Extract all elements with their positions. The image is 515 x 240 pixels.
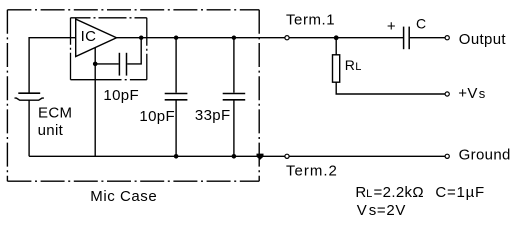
svg-text:Vs=2V: Vs=2V <box>357 202 406 219</box>
wire: C3 top lead <box>233 38 235 93</box>
wire: C2 top lead <box>175 38 177 93</box>
node: output bus at RL <box>334 35 339 40</box>
terminal Ground <box>445 154 449 158</box>
wire: input from ECM to IC amp <box>29 38 76 93</box>
capacitor C1 10pF feedback plates <box>118 53 120 76</box>
capacitor C2 10pF plates <box>165 93 188 95</box>
ground rail wire from ECM to Ground terminal <box>29 155 445 157</box>
svg-text:RL=2.2kΩ: RL=2.2kΩ <box>355 184 424 201</box>
IC package dash-dot box <box>71 18 147 80</box>
node: ground rail at C2 <box>174 154 179 159</box>
svg-text:Mic Case: Mic Case <box>90 188 157 205</box>
wire: feedback junction to feedback cap <box>95 63 119 65</box>
terminal Term.2 <box>285 154 289 158</box>
terminal +Vs <box>445 92 449 96</box>
wire: RL top lead <box>335 38 337 55</box>
op-amp U1 triangle (IC) <box>76 19 117 56</box>
node: output bus at C3 <box>232 36 236 40</box>
svg-text:ECM: ECM <box>38 104 72 121</box>
terminal Output <box>445 36 449 40</box>
wire: feedback vertical from amp to ground rail <box>94 48 96 157</box>
capacitor C output coupling plates <box>403 27 405 50</box>
node: mic case connection to ground rail (arrow) <box>257 154 264 160</box>
svg-text:+Vs: +Vs <box>458 85 485 102</box>
terminal Term.1 <box>285 36 289 40</box>
svg-text:+: + <box>387 18 396 35</box>
svg-text:10pF: 10pF <box>103 87 139 104</box>
svg-text:Term.2: Term.2 <box>286 163 338 180</box>
ECM capsule top plate <box>18 92 40 94</box>
ECM capsule bottom curved plate <box>15 98 44 100</box>
wire: C2 bottom lead <box>175 101 177 157</box>
svg-text:10pF: 10pF <box>139 108 175 125</box>
capacitor C3 33pF plates <box>223 93 246 95</box>
mic case dash-dot border <box>7 10 259 181</box>
svg-text:IC: IC <box>81 28 97 45</box>
node: ground rail at C3 <box>232 154 237 159</box>
svg-text:unit: unit <box>38 122 64 139</box>
svg-text:Output: Output <box>459 31 507 48</box>
wire: output bus from amp to coupling cap <box>117 37 404 39</box>
resistor RL <box>333 55 340 82</box>
wire: RL bottom lead and +Vs rail <box>336 82 445 94</box>
svg-text:Term.1: Term.1 <box>286 11 335 28</box>
svg-text:Ground: Ground <box>459 147 511 164</box>
svg-text:C=1µF: C=1µF <box>435 184 485 201</box>
svg-text:33pF: 33pF <box>195 107 231 124</box>
node: output bus at feedback <box>139 36 143 40</box>
wire: feedback cap to output bus <box>127 38 141 64</box>
node: feedback junction <box>93 62 98 67</box>
svg-text:C: C <box>416 16 426 32</box>
wire: C3 bottom lead <box>233 101 235 157</box>
wire: ECM bottom lead down to ground rail <box>28 100 30 156</box>
wire: output bus after coupling cap to Output terminal <box>410 37 445 39</box>
node: output bus at C2 <box>174 36 178 40</box>
